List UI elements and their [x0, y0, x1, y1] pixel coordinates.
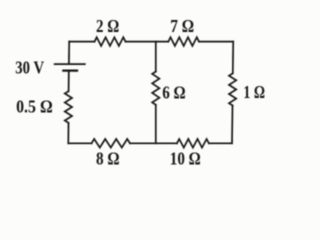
wire left middle segment [68, 72, 70, 91]
svg-text:6 Ω: 6 Ω [162, 83, 186, 103]
svg-text:8 Ω: 8 Ω [96, 148, 120, 168]
wire bottom-middle segment [130, 142, 177, 144]
resistor 1 Ω [229, 73, 236, 105]
svg-text:1 Ω: 1 Ω [243, 82, 265, 102]
resistor 10 Ω [177, 139, 209, 148]
wire middle upper segment [155, 42, 157, 72]
battery 30 V positive plate [55, 63, 85, 65]
resistor 8 Ω [92, 139, 131, 148]
svg-text:7 Ω: 7 Ω [170, 16, 194, 36]
svg-text:0.5 Ω: 0.5 Ω [16, 97, 53, 117]
svg-text:10 Ω: 10 Ω [170, 149, 201, 169]
wire bottom-left segment [68, 142, 91, 144]
wire top-right segment [199, 41, 233, 43]
wire middle lower segment [155, 105, 157, 144]
wire top-middle segment [126, 41, 169, 43]
resistor 2 Ω [95, 37, 126, 46]
svg-text:2 Ω: 2 Ω [96, 16, 119, 36]
resistor 7 Ω [168, 37, 199, 46]
wire top-left segment [69, 41, 94, 43]
wire right upper segment [232, 42, 234, 74]
resistor 0.5 Ω [65, 91, 72, 123]
resistor 6 Ω [152, 72, 159, 105]
battery 30 V negative plate [63, 69, 77, 71]
wire left upper segment [68, 42, 70, 64]
wire left lower segment [67, 123, 69, 144]
svg-text:30 V: 30 V [15, 58, 44, 78]
wire bottom-right segment [209, 142, 232, 144]
wire right lower segment [231, 106, 234, 144]
